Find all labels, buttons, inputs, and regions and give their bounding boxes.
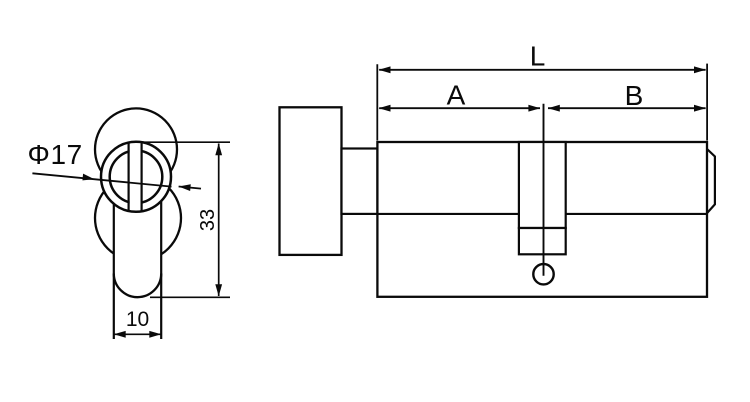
- svg-text:10: 10: [126, 308, 149, 331]
- svg-text:L: L: [530, 41, 546, 72]
- svg-text:33: 33: [197, 209, 219, 231]
- svg-text:B: B: [625, 80, 644, 111]
- svg-text:A: A: [447, 80, 466, 111]
- svg-text:Φ17: Φ17: [28, 139, 83, 170]
